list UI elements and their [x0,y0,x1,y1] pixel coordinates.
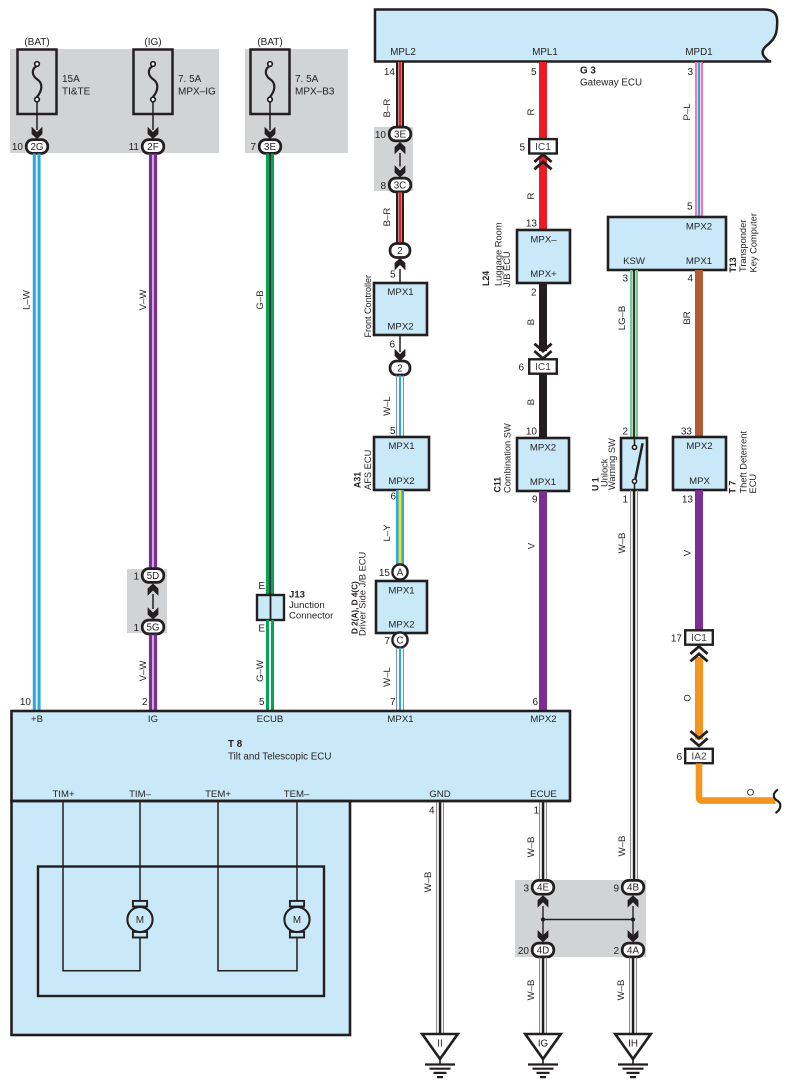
svg-text:G–W: G–W [255,659,266,682]
svg-text:4B: 4B [627,883,639,894]
svg-text:3E: 3E [264,142,276,153]
wire W-B (connector 4D pin 20 to ground IG) [539,957,540,1034]
svg-text:MPX2: MPX2 [686,441,712,452]
svg-text:T13: T13 [728,257,738,272]
svg-text:TI&TE: TI&TE [62,87,91,98]
wire B (IC1 to C11 MPX2 pin 10) [539,374,547,438]
svg-text:13: 13 [682,495,694,506]
svg-text:14: 14 [384,67,396,78]
svg-text:L–Y: L–Y [382,524,393,542]
junction connector 4E/4D [532,880,554,894]
wire W-B (U1 pin 1 to connector 4B pin 9) [630,490,631,880]
svg-text:2F: 2F [147,142,158,153]
tilt motor M [133,901,147,907]
svg-text:3E: 3E [394,129,406,140]
wire V-W (fuse 2F to connector 5D) [149,154,153,569]
junction wire between 4E/4D and 4B/4A columns [543,919,633,921]
svg-text:ECUB: ECUB [257,714,284,725]
junction block shading (fuse block right) [245,49,348,153]
connector IC1 pin 6 [529,359,557,373]
ground IG [525,1034,561,1059]
svg-text:T 8: T 8 [228,739,243,750]
svg-text:MPX–IG: MPX–IG [178,87,216,98]
svg-text:MPX–B3: MPX–B3 [295,87,335,98]
svg-text:J13: J13 [289,590,305,601]
svg-text:TIM–: TIM– [129,789,152,800]
wire L-Y (A31 MPX2 pin 6 to connector A pin 15) [396,490,399,565]
svg-text:10: 10 [526,427,538,438]
svg-text:AFS ECU: AFS ECU [363,450,373,490]
svg-text:7. 5A: 7. 5A [178,74,202,85]
svg-text:A31: A31 [353,472,363,488]
svg-text:TEM–: TEM– [284,789,310,800]
svg-text:P–L: P–L [682,103,693,121]
junction block shading (connectors 5D/5G) [127,569,167,633]
wire W-B (T8 GND pin 4 to ground II) [436,802,437,1034]
svg-text:Key Computer: Key Computer [749,213,759,272]
svg-text:(BAT): (BAT) [24,37,49,48]
svg-text:6: 6 [518,363,524,374]
junction block shading (connectors 4E/4B/4D/4A) [515,880,646,957]
connector 2 into front controller pin 5 [390,244,410,258]
wire B-R (G3 MPL2 pin 14 to connector 3E) [396,62,404,128]
svg-text:MPL2: MPL2 [390,47,416,58]
connector 2 below front controller pin 6 [399,335,401,352]
wire W-B (T8 ECUE pin 1 to connector 4E) [539,802,540,880]
svg-text:15: 15 [379,568,391,579]
svg-text:Connector: Connector [289,611,334,622]
wire G-W (J13 to T8 ECUB, pin 5) [266,620,269,711]
svg-text:MPX1: MPX1 [388,441,414,452]
wire L-W (fuse 2G to T8 +B, pin 10) [33,154,36,712]
wire LG-B (T13 KSW pin 3 to U1 pin 2) [630,270,633,438]
svg-text:10: 10 [375,130,387,141]
svg-text:W–B: W–B [617,533,628,554]
svg-text:W–B: W–B [423,872,434,893]
svg-text:GND: GND [429,789,450,800]
connector A [392,564,407,579]
svg-text:6: 6 [390,492,396,503]
junction connector 4B/4A [622,880,644,894]
fuse 7.5A MPX-IG with connector 2F pin 11 [134,50,173,115]
svg-text:2: 2 [142,697,148,708]
svg-text:8: 8 [380,181,386,192]
wire O (IA2 continuing right, off-page) [699,764,776,801]
svg-text:3: 3 [523,883,529,894]
wire V (C11 MPX1 pin 9 to T8 MPX2 pin 6) [539,491,547,711]
svg-text:II: II [437,1039,442,1050]
svg-text:B: B [526,399,537,405]
svg-text:M: M [136,915,144,926]
svg-text:B–R: B–R [382,208,393,227]
svg-text:R: R [526,192,537,199]
svg-text:4: 4 [429,806,435,817]
svg-text:MPX: MPX [689,476,710,487]
svg-text:V–W: V–W [138,660,149,682]
T8 internal divider line [10,800,570,803]
svg-text:6: 6 [389,340,395,351]
T7 theft deterrent ECU box [673,437,726,490]
svg-text:7: 7 [384,636,390,647]
gateway ECU G3 box [375,10,777,62]
svg-text:2G: 2G [30,142,43,153]
svg-text:5D: 5D [147,571,160,582]
svg-text:BR: BR [682,311,693,324]
svg-text:G 3: G 3 [580,66,596,77]
svg-text:MPX2: MPX2 [388,619,414,630]
wire W-L (connector C to T8 MPX1 pin 7) [396,648,397,711]
wire BR (T13 MPX1 pin 4 to T7 MPX2 pin 33) [695,270,703,437]
svg-text:IC1: IC1 [691,633,707,644]
T8 tilt and telescopic ECU box [12,711,571,801]
connector IC1 pin 17 [685,630,713,644]
ground II [422,1034,458,1059]
internal circuit frame [38,867,324,997]
svg-text:LG–B: LG–B [617,306,628,331]
svg-text:13: 13 [526,219,538,230]
svg-text:15A: 15A [62,74,80,85]
svg-text:5: 5 [390,270,396,281]
svg-text:4A: 4A [627,945,639,956]
svg-text:5: 5 [687,202,693,213]
svg-text:MPL1: MPL1 [532,47,558,58]
svg-text:2: 2 [622,427,628,438]
wire V-W (connector 5G to T8 IG, pin 2) [149,635,153,712]
svg-text:5G: 5G [146,622,159,633]
svg-text:MPX2: MPX2 [387,322,413,333]
svg-text:1: 1 [533,806,539,817]
svg-text:W–B: W–B [616,980,627,1001]
svg-text:TIM+: TIM+ [52,789,75,800]
svg-text:W–L: W–L [382,395,393,415]
wire B-R (connector 3C to connector 2) [396,193,404,244]
svg-text:MPX–: MPX– [530,234,557,245]
svg-text:W–B: W–B [526,980,537,1001]
svg-text:(BAT): (BAT) [257,37,282,48]
svg-text:5: 5 [259,697,265,708]
svg-text:Driver Side J/B ECU: Driver Side J/B ECU [358,552,368,636]
junction connector 5D/5G [142,569,164,583]
svg-text:3C: 3C [394,180,407,191]
svg-text:V–W: V–W [138,289,149,311]
wire B (L24 MPX+ pin 2 to IC1 pin 6) with arrows [539,283,547,351]
T8 lower compartment [12,801,351,1035]
svg-text:1: 1 [133,623,139,634]
svg-text:6: 6 [676,752,682,763]
svg-text:20: 20 [518,946,530,957]
svg-text:MPX1: MPX1 [387,714,413,725]
svg-text:3: 3 [687,67,693,78]
svg-text:5: 5 [519,143,525,154]
svg-text:G–B: G–B [255,290,266,309]
svg-text:10: 10 [12,142,24,153]
wire P-L (G3 MPD1 pin 3 to T13 MPX2 pin 5) [695,62,697,217]
svg-text:2: 2 [613,946,619,957]
svg-text:L–W: L–W [22,289,33,310]
T13 transponder key computer box [608,217,726,270]
svg-text:4D: 4D [537,945,550,956]
svg-text:KSW: KSW [623,256,646,267]
svg-text:MPX2: MPX2 [530,442,556,453]
svg-text:9: 9 [532,495,538,506]
svg-text:Transponder: Transponder [738,220,748,272]
svg-text:V: V [527,542,538,549]
svg-text:2: 2 [397,363,402,374]
svg-text:IC1: IC1 [535,362,551,373]
svg-text:MPX2: MPX2 [686,221,712,232]
ground IH [615,1034,651,1059]
svg-text:4: 4 [687,274,693,285]
svg-text:IG: IG [538,1039,548,1050]
svg-text:(IG): (IG) [144,37,161,48]
svg-text:MPD1: MPD1 [685,47,712,58]
svg-text:TEM+: TEM+ [205,789,231,800]
svg-text:B: B [526,319,537,325]
svg-text:4E: 4E [537,883,549,894]
svg-text:10: 10 [20,697,32,708]
svg-text:R: R [526,108,537,115]
svg-text:6: 6 [532,697,538,708]
svg-text:IH: IH [628,1039,638,1050]
svg-text:O: O [747,788,754,799]
L24 luggage room J/B ECU box [517,230,570,283]
telescopic motor M [290,901,304,907]
arrows into IC1 pin 5 [534,155,551,162]
svg-text:ECU: ECU [748,474,758,494]
svg-text:+B: +B [31,714,43,725]
svg-text:2: 2 [531,288,537,299]
svg-text:O: O [683,694,694,701]
svg-text:5: 5 [390,426,396,437]
svg-text:5: 5 [531,67,537,78]
svg-text:Junction: Junction [289,600,325,611]
junction block shading (fuse block left) [10,49,219,153]
svg-text:C: C [396,635,403,646]
svg-text:C11: C11 [493,477,503,493]
wire O (IC1 to IA2 pin 6) with arrows [695,657,703,740]
svg-text:MPX1: MPX1 [686,256,712,267]
wire W-L (connector 2 to A31 MPX1 pin 5) [396,375,397,437]
svg-text:A: A [397,567,404,578]
svg-text:Gateway ECU: Gateway ECU [580,78,642,89]
wires TEM+ / TEM- to telescopic motor [218,801,297,971]
svg-text:MPX1: MPX1 [530,477,556,488]
connector C [392,632,407,647]
wire V (T7 MPX pin 13 to IC1 pin 17) [695,490,703,630]
svg-text:W–L: W–L [382,666,393,686]
svg-text:MPX2: MPX2 [388,476,414,487]
svg-text:W–B: W–B [526,837,537,858]
driver side J/B ECU box D2(A) D4(C) [376,581,427,633]
svg-text:IC1: IC1 [535,142,551,153]
svg-text:7: 7 [250,142,256,153]
wires TIM+ / TIM- to tilt motor [63,801,140,971]
svg-text:1: 1 [622,495,628,506]
A31 AFS ECU box [374,437,429,490]
svg-text:2: 2 [397,246,402,257]
C11 combination switch box [517,438,569,491]
junction connector 3E/3C [389,127,411,141]
svg-text:MPX+: MPX+ [530,269,557,280]
svg-text:Combination SW: Combination SW [503,423,513,493]
junction block shading (connectors 3E/3C) [374,127,413,191]
svg-text:Theft Deterrent: Theft Deterrent [739,431,749,494]
svg-text:V: V [683,549,694,556]
svg-text:9: 9 [613,883,619,894]
svg-text:W–B: W–B [617,836,628,857]
svg-text:Tilt and Telescopic ECU: Tilt and Telescopic ECU [228,752,331,763]
svg-text:B–R: B–R [382,99,393,118]
U1 unlock warning switch box [621,438,647,490]
wire W-B (connector 4A pin 2 to ground IH) [629,957,630,1034]
svg-text:E: E [258,581,265,592]
svg-text:L24: L24 [481,271,491,286]
svg-text:E: E [258,624,265,635]
wire R (IC1 to L24 MPX- pin 13) [539,156,547,230]
svg-text:IA2: IA2 [691,752,707,763]
svg-text:1: 1 [133,572,139,583]
svg-text:IG: IG [148,714,158,725]
arrows into IC1 pin 17 [690,647,707,654]
fuse 7.5A MPX-B3 with connector 3E pin 7 [251,50,290,115]
svg-text:17: 17 [671,634,683,645]
fuse 15A TI&TE with connector 2G pin 10 [18,50,57,115]
wire R (G3 MPL1 pin 5 to IC1 pin 5) [539,62,547,139]
wire G-B (fuse 3E to junction connector J13) [266,154,269,596]
svg-text:MPX2: MPX2 [530,714,556,725]
svg-text:Front Controller: Front Controller [363,275,373,338]
svg-text:ECUE: ECUE [530,789,557,800]
svg-text:T 7: T 7 [728,481,738,494]
front controller box [374,283,427,335]
svg-text:3: 3 [622,274,628,285]
svg-text:11: 11 [129,142,140,153]
svg-text:MPX1: MPX1 [388,585,414,596]
connector IC1 pin 5 [529,139,557,153]
svg-text:MPX1: MPX1 [387,287,413,298]
svg-text:Warning SW: Warning SW [607,438,617,490]
svg-text:J/B ECU: J/B ECU [502,251,512,287]
connector IA2 pin 6 [685,749,713,763]
svg-text:M: M [293,915,301,926]
svg-text:7. 5A: 7. 5A [295,74,319,85]
svg-text:7: 7 [390,697,396,708]
junction connector J13 [257,595,284,620]
